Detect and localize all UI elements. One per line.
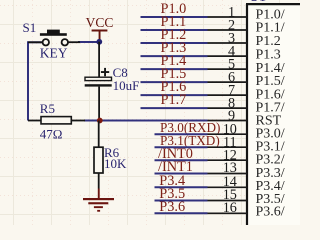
pin 3 bbox=[208, 31, 281, 50]
switch S1 bbox=[23, 20, 81, 61]
svg-text:16: 16 bbox=[223, 200, 237, 216]
wire bbox=[141, 42, 208, 44]
pin 12 bbox=[208, 148, 285, 168]
wire bbox=[141, 107, 208, 109]
pin 4 bbox=[208, 44, 281, 63]
junction (R5 / C8 / R6 / RST) bbox=[97, 118, 103, 124]
svg-text:10K: 10K bbox=[104, 156, 127, 171]
svg-text:P3.6/: P3.6/ bbox=[256, 204, 285, 219]
junction (VCC / S1 / C8) bbox=[96, 39, 102, 45]
wire bbox=[155, 133, 208, 135]
capacitor C8 bbox=[85, 42, 140, 121]
pin 14 bbox=[208, 174, 285, 194]
pin 8 bbox=[208, 96, 285, 116]
net label /INT0 bbox=[158, 146, 193, 162]
net label P3.5 bbox=[159, 186, 185, 202]
svg-text:10uF: 10uF bbox=[113, 78, 140, 93]
svg-text:R5: R5 bbox=[40, 101, 55, 116]
IC U1 body bbox=[246, 0, 300, 225]
net label P1.6 bbox=[161, 79, 187, 95]
net label /INT1 bbox=[158, 159, 193, 175]
svg-text:U1: U1 bbox=[249, 0, 266, 5]
pin 15 bbox=[208, 187, 285, 207]
wire bbox=[155, 146, 208, 148]
net label P1.7 bbox=[161, 92, 187, 108]
wire bbox=[141, 81, 208, 83]
net label P1.4 bbox=[161, 53, 187, 69]
net label P1.0 bbox=[161, 1, 187, 17]
pin 6 bbox=[208, 70, 285, 90]
pin 2 bbox=[208, 18, 285, 36]
wire bbox=[141, 94, 208, 96]
net label P1.2 bbox=[161, 27, 187, 43]
svg-text:S1: S1 bbox=[23, 20, 37, 35]
net label P3.1(TXD) bbox=[160, 133, 220, 148]
svg-text:P1.7: P1.7 bbox=[161, 92, 187, 108]
net label P1.3 bbox=[161, 40, 187, 56]
svg-text:KEY: KEY bbox=[40, 45, 68, 60]
net label P1.1 bbox=[161, 14, 187, 30]
net label P3.4 bbox=[159, 173, 185, 189]
wire bbox=[155, 159, 208, 161]
ground bbox=[83, 189, 114, 212]
wire bbox=[141, 29, 208, 31]
wire bbox=[155, 186, 208, 188]
pin 1 bbox=[208, 5, 285, 23]
pin 11 bbox=[208, 135, 285, 155]
wire bbox=[141, 68, 208, 70]
power VCC bbox=[86, 15, 114, 41]
resistor R6 bbox=[94, 121, 127, 189]
svg-text:47Ω: 47Ω bbox=[40, 126, 63, 141]
pin 16 bbox=[208, 200, 285, 220]
wire bbox=[28, 42, 42, 120]
wire bbox=[78, 41, 100, 43]
pin 7 bbox=[208, 83, 285, 103]
net label P3.6 bbox=[159, 199, 185, 215]
pin 9 RST bbox=[208, 108, 282, 128]
pin 13 bbox=[208, 160, 285, 181]
pin 10 bbox=[208, 122, 285, 142]
wire bbox=[141, 55, 208, 57]
net label P1.5 bbox=[161, 66, 187, 82]
wire bbox=[155, 173, 208, 175]
wire bbox=[141, 16, 208, 18]
pin 5 bbox=[208, 57, 285, 76]
svg-text:VCC: VCC bbox=[86, 15, 114, 30]
wire bbox=[84, 120, 208, 122]
wire bbox=[155, 200, 208, 202]
net label P3.0(RXD) bbox=[160, 120, 220, 135]
resistor R5 bbox=[28, 101, 85, 141]
wire bbox=[155, 212, 208, 214]
